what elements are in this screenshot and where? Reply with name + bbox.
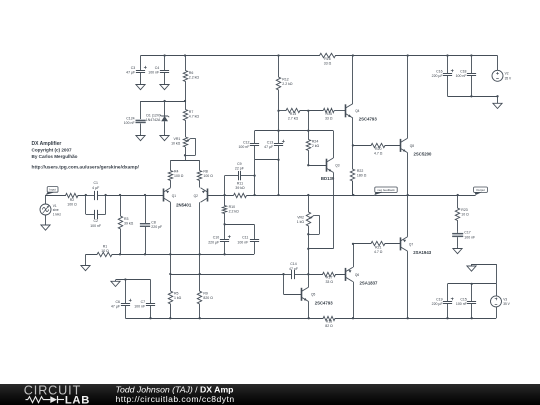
wire R22 column <box>352 181 354 195</box>
wire Q4 collector <box>352 56 354 104</box>
node rail junctions <box>163 54 165 56</box>
svg-text:10 kΩ: 10 kΩ <box>171 142 181 146</box>
wire V3 top <box>448 283 497 285</box>
svg-text:2.7 kΩ: 2.7 kΩ <box>288 117 299 121</box>
wire positive supply rail <box>141 55 319 57</box>
resistor R18 <box>323 316 336 320</box>
capacitor C124 <box>140 101 142 119</box>
svg-text:V1: V1 <box>53 204 57 208</box>
wire diff collectors to driver <box>170 274 283 276</box>
wire Q7 collector <box>407 251 409 318</box>
svg-text:V3: V3 <box>503 297 507 301</box>
capacitor C3 <box>140 56 142 71</box>
svg-text:R4: R4 <box>174 169 179 173</box>
transistor Q1 <box>163 189 165 202</box>
wire Q2 collector <box>199 202 201 274</box>
wire R11 to VAS spine <box>247 195 375 197</box>
svg-text:100 nF: 100 nF <box>134 305 145 309</box>
svg-text:39 kΩ: 39 kΩ <box>124 222 134 226</box>
node C1 right <box>104 194 106 196</box>
wire Q7 emitter <box>407 195 409 237</box>
transistor Q3 BD139 <box>326 159 328 172</box>
wire Q8 collector <box>407 56 409 139</box>
svg-text:Q7: Q7 <box>409 242 413 246</box>
wire C2 bypass loop <box>85 195 87 214</box>
svg-text:4 µF: 4 µF <box>92 186 99 190</box>
svg-text:1 kΩ: 1 kΩ <box>297 220 305 224</box>
svg-text:R7: R7 <box>189 110 194 114</box>
resistor R5 <box>168 274 172 318</box>
svg-text:1 kHz: 1 kHz <box>53 213 62 217</box>
svg-text:C2: C2 <box>93 219 98 223</box>
svg-text:sine: sine <box>53 208 59 212</box>
svg-text:82 Ω: 82 Ω <box>325 324 333 328</box>
svg-text:33 Ω: 33 Ω <box>325 280 333 284</box>
svg-text:2SA1837: 2SA1837 <box>360 280 379 285</box>
svg-text:100 nF: 100 nF <box>456 302 467 306</box>
svg-text:33 Ω: 33 Ω <box>324 61 332 65</box>
svg-text:2N5401: 2N5401 <box>176 202 192 207</box>
svg-text:VR1: VR1 <box>173 137 180 141</box>
svg-text:BD139: BD139 <box>321 176 335 181</box>
svg-text:2 kΩ: 2 kΩ <box>312 144 320 148</box>
resistor R6 <box>183 56 187 102</box>
svg-text:C8: C8 <box>151 220 156 224</box>
resistor R4 <box>168 171 172 188</box>
resistor R20 <box>353 143 400 147</box>
wire driver node <box>284 274 291 276</box>
svg-text:2.2 kΩ: 2.2 kΩ <box>229 210 240 214</box>
svg-text:1 kΩ: 1 kΩ <box>174 296 182 300</box>
wire VR2 wiper loop <box>314 215 319 217</box>
svg-text:180 Ω: 180 Ω <box>357 174 367 178</box>
wire supply filter node <box>141 101 185 103</box>
resistor R24 <box>306 131 310 166</box>
node Q4 emitter junction <box>352 144 354 146</box>
ground below V1 <box>45 215 47 225</box>
svg-text:C19: C19 <box>436 298 442 302</box>
svg-text:DX Amplifier: DX Amplifier <box>32 141 62 147</box>
ground below C4 <box>164 74 166 85</box>
svg-text:R2: R2 <box>70 198 75 202</box>
svg-text:47 pF: 47 pF <box>289 267 298 271</box>
svg-text:C6: C6 <box>116 300 121 304</box>
svg-text:C7: C7 <box>141 300 146 304</box>
svg-text:R18: R18 <box>326 319 332 323</box>
svg-text:VR2: VR2 <box>297 216 304 220</box>
svg-text:C3: C3 <box>131 66 136 70</box>
svg-text:100 nF: 100 nF <box>464 235 475 239</box>
ground below D1 <box>164 134 166 136</box>
svg-text:R3: R3 <box>124 217 129 221</box>
svg-text:R10: R10 <box>229 205 235 209</box>
wire Q6 emitter <box>353 244 355 267</box>
svg-text:35 V: 35 V <box>505 76 512 80</box>
svg-text:2.2 kΩ: 2.2 kΩ <box>189 76 200 80</box>
transistor Q4 2SC4793 <box>345 104 347 117</box>
wire VR1 to diff pair <box>185 147 187 161</box>
wire Q4 emitter <box>352 118 354 145</box>
resistor R8 <box>197 171 201 188</box>
svg-text:C124: C124 <box>126 117 134 121</box>
svg-text:Q1: Q1 <box>172 194 176 198</box>
svg-text:47 µF: 47 µF <box>264 145 273 149</box>
wire C13 to mid wire <box>278 160 280 195</box>
svg-text:39 kΩ: 39 kΩ <box>235 186 245 190</box>
resistor R23 <box>455 195 459 232</box>
svg-text:2SA1943: 2SA1943 <box>413 250 432 255</box>
wire C12 column to mid wire <box>254 160 256 195</box>
wire VR1 wiper loop <box>191 138 196 140</box>
svg-text:C15: C15 <box>460 298 466 302</box>
flag neg feedback <box>374 192 383 195</box>
svg-text:C12: C12 <box>243 140 249 144</box>
svg-text:2SC5200: 2SC5200 <box>414 151 433 156</box>
svg-text:100 nF: 100 nF <box>148 71 159 75</box>
resistor R7 <box>183 101 187 137</box>
svg-text:R9: R9 <box>203 291 208 295</box>
wire Q8 emitter <box>407 153 409 195</box>
capacitor C4 <box>164 56 166 71</box>
svg-text:220 µF: 220 µF <box>432 302 443 306</box>
svg-text:R16: R16 <box>324 57 330 61</box>
svg-text:35 V: 35 V <box>503 302 510 306</box>
ground below C17 <box>457 247 459 249</box>
capacitor C8 <box>145 195 147 223</box>
wire V3 to negative rail <box>496 307 498 318</box>
svg-text:100 Ω: 100 Ω <box>67 202 77 206</box>
svg-text:820 Ω: 820 Ω <box>203 296 213 300</box>
svg-text:22 pF: 22 pF <box>235 166 244 170</box>
svg-text:R5: R5 <box>174 291 179 295</box>
capacitor C14 <box>291 274 292 276</box>
svg-text:Q8: Q8 <box>410 144 414 148</box>
capacitor C7 <box>150 280 152 304</box>
resistor R11 <box>234 193 247 197</box>
wire R13 junction down <box>308 111 310 131</box>
svg-text:By Carlos Mergulhão: By Carlos Mergulhão <box>32 154 78 159</box>
svg-text:R11: R11 <box>237 182 243 186</box>
ground for V3 <box>471 264 473 266</box>
svg-text:100 nF: 100 nF <box>124 121 135 125</box>
wire Q5 collector <box>308 274 310 287</box>
wire VR2 to driver node <box>308 234 310 274</box>
svg-text:R13: R13 <box>290 112 296 116</box>
svg-text:4.7 Ω: 4.7 Ω <box>374 152 383 156</box>
svg-text:R6: R6 <box>189 71 194 75</box>
svg-text:47 µF: 47 µF <box>126 71 135 75</box>
flag Input <box>46 192 57 195</box>
svg-text:R8: R8 <box>203 169 208 173</box>
ground for R1 <box>85 254 87 265</box>
resistor R15 <box>323 108 334 112</box>
resistor R17 <box>308 272 345 276</box>
capacitor C10 <box>224 224 226 239</box>
resistor R21 <box>353 241 400 245</box>
svg-text:C4: C4 <box>155 66 160 70</box>
svg-text:C14: C14 <box>290 262 296 266</box>
resistor R2 <box>63 193 86 197</box>
transistor Q7 2SA1943 <box>400 237 402 250</box>
ground below C3 <box>140 74 142 85</box>
wire C12 C13 bottom <box>255 159 279 161</box>
wire C9 loop <box>224 176 226 195</box>
resistor R9 <box>197 274 201 318</box>
svg-text:2SC4793: 2SC4793 <box>315 300 334 305</box>
wire Q1 collector <box>170 202 172 274</box>
svg-text:Output: Output <box>476 188 485 192</box>
zener diode D1 <box>164 101 166 116</box>
svg-text:Q5: Q5 <box>311 293 315 297</box>
svg-text:C18: C18 <box>460 70 466 74</box>
svg-text:100 Ω: 100 Ω <box>203 174 213 178</box>
wire BD139 collector <box>333 131 335 158</box>
svg-text:Copyright (c) 2007: Copyright (c) 2007 <box>32 148 73 153</box>
svg-text:LAB: LAB <box>65 394 90 405</box>
capacitor C11 <box>254 224 256 239</box>
svg-text:220 µF: 220 µF <box>208 240 219 244</box>
svg-text:2.2 kΩ: 2.2 kΩ <box>282 82 293 86</box>
wire R10 bottom to C11 <box>225 224 254 226</box>
svg-text:10 Ω: 10 Ω <box>101 249 109 253</box>
wire Q6 collector <box>353 282 355 319</box>
capacitor C18 <box>471 56 473 74</box>
node R3 top <box>119 194 121 196</box>
wire diff pair emitter split <box>170 160 199 162</box>
wire Q5 emitter <box>308 302 310 319</box>
wire V2 bottom <box>448 96 498 98</box>
svg-text:220 µF: 220 µF <box>432 74 443 78</box>
capacitor C9 <box>238 171 240 180</box>
svg-text:C13: C13 <box>267 140 273 144</box>
resistor R10 <box>222 195 226 224</box>
svg-text:R20: R20 <box>375 147 381 151</box>
svg-text:C17: C17 <box>464 231 470 235</box>
resistor R13 <box>286 108 301 112</box>
wire V3 ground loop <box>472 264 497 266</box>
node C8 top <box>144 194 146 196</box>
capacitor C19 <box>447 284 449 301</box>
voltage source V1 <box>45 195 47 204</box>
resistor R16 <box>319 53 337 57</box>
potentiometer VR2 <box>306 195 310 234</box>
node Q6 emitter junction <box>352 243 354 245</box>
ground below V2 <box>497 96 499 103</box>
ground for C6 C7 <box>115 280 117 282</box>
svg-text:Q3: Q3 <box>335 164 339 168</box>
wire BD139 emitter to VR2 <box>308 248 333 250</box>
svg-text:Q6: Q6 <box>355 273 359 277</box>
svg-text:Input: Input <box>49 188 56 192</box>
capacitor C13 <box>278 131 280 144</box>
wire VAS spine to output node <box>374 195 475 197</box>
svg-text:R21: R21 <box>375 245 381 249</box>
capacitor C16 <box>447 56 449 74</box>
wire Q2 base to feedback network <box>208 195 234 197</box>
svg-text:100 Ω: 100 Ω <box>174 174 184 178</box>
node C1 left <box>85 194 87 196</box>
svg-text:C11: C11 <box>242 236 248 240</box>
svg-text:D1 (12V): D1 (12V) <box>146 114 160 118</box>
capacitor C12 <box>254 131 256 144</box>
svg-text:2SC4793: 2SC4793 <box>359 117 378 122</box>
svg-text:1N4742A: 1N4742A <box>146 118 161 122</box>
svg-text:100 nF: 100 nF <box>90 224 101 228</box>
voltage source V2 <box>497 56 499 71</box>
svg-text:R24: R24 <box>312 139 318 143</box>
wire VAS top <box>255 130 334 132</box>
transistor Q6 2SA1837 <box>345 268 347 281</box>
resistor R1 <box>86 252 120 256</box>
svg-text:R15: R15 <box>325 112 331 116</box>
svg-text:10 Ω: 10 Ω <box>461 213 469 217</box>
wire input to R2 <box>46 195 64 197</box>
svg-text:http://users.tpg.com.au/users/: http://users.tpg.com.au/users/gerskine/d… <box>32 165 140 171</box>
svg-text:100 nF: 100 nF <box>237 240 248 244</box>
svg-text:100 nF: 100 nF <box>238 145 249 149</box>
svg-text:33 Ω: 33 Ω <box>325 117 333 121</box>
wire C6 C7 top <box>116 279 151 281</box>
svg-text:R12: R12 <box>282 78 288 82</box>
svg-text:R22: R22 <box>357 169 363 173</box>
svg-text:4.7 kΩ: 4.7 kΩ <box>189 115 200 119</box>
svg-text:Todd Johnson (TAJ) / DX Amp: Todd Johnson (TAJ) / DX Amp <box>116 385 234 395</box>
transistor Q5 2SC4793 <box>301 288 303 301</box>
wire feedback ground return <box>120 254 254 256</box>
capacitor C1 <box>86 195 95 197</box>
capacitor C17 <box>457 232 459 233</box>
svg-text:Q4: Q4 <box>355 109 359 113</box>
svg-text:http://circuitlab.com/cc8dytn: http://circuitlab.com/cc8dytn <box>116 394 235 404</box>
wire negative supply rail <box>125 318 322 320</box>
voltage source V3 <box>496 284 498 296</box>
node driver junction <box>307 273 309 275</box>
capacitor C6 <box>125 280 127 304</box>
svg-text:C1: C1 <box>93 181 98 185</box>
potentiometer VR1 <box>183 137 187 147</box>
resistor R12 <box>276 56 280 111</box>
capacitor C2 <box>86 214 95 216</box>
resistor R3 <box>118 195 122 254</box>
capacitor C15 <box>471 284 473 301</box>
wire Q5 base branch <box>283 274 285 294</box>
wire BD139 base <box>308 165 326 167</box>
svg-text:R17: R17 <box>326 276 332 280</box>
svg-text:4.7 Ω: 4.7 Ω <box>374 250 383 254</box>
svg-text:220 pF: 220 pF <box>151 225 162 229</box>
wire C1 to Q1 base <box>106 195 164 197</box>
svg-text:C9: C9 <box>237 162 242 166</box>
svg-text:C10: C10 <box>213 236 219 240</box>
resistor R22 <box>350 145 354 195</box>
wire Q1 emitter <box>170 186 172 188</box>
transistor Q8 2SC5200 <box>400 139 402 152</box>
svg-text:C16: C16 <box>436 70 442 74</box>
svg-text:100 nF: 100 nF <box>456 74 467 78</box>
transistor Q2 <box>207 189 209 202</box>
svg-text:R23: R23 <box>461 208 467 212</box>
wire VAS base row <box>279 110 286 112</box>
flag Output <box>474 192 482 195</box>
svg-text:V2: V2 <box>505 72 509 76</box>
wire BD139 emitter <box>333 172 335 248</box>
wire R12 to C13 <box>278 111 280 131</box>
ground below C124 <box>140 134 142 136</box>
svg-text:neg feedback: neg feedback <box>377 188 395 192</box>
svg-text:Q2: Q2 <box>194 194 198 198</box>
svg-text:47 µF: 47 µF <box>111 305 120 309</box>
node negative rail junctions <box>149 317 151 319</box>
svg-text:R1: R1 <box>103 244 108 248</box>
